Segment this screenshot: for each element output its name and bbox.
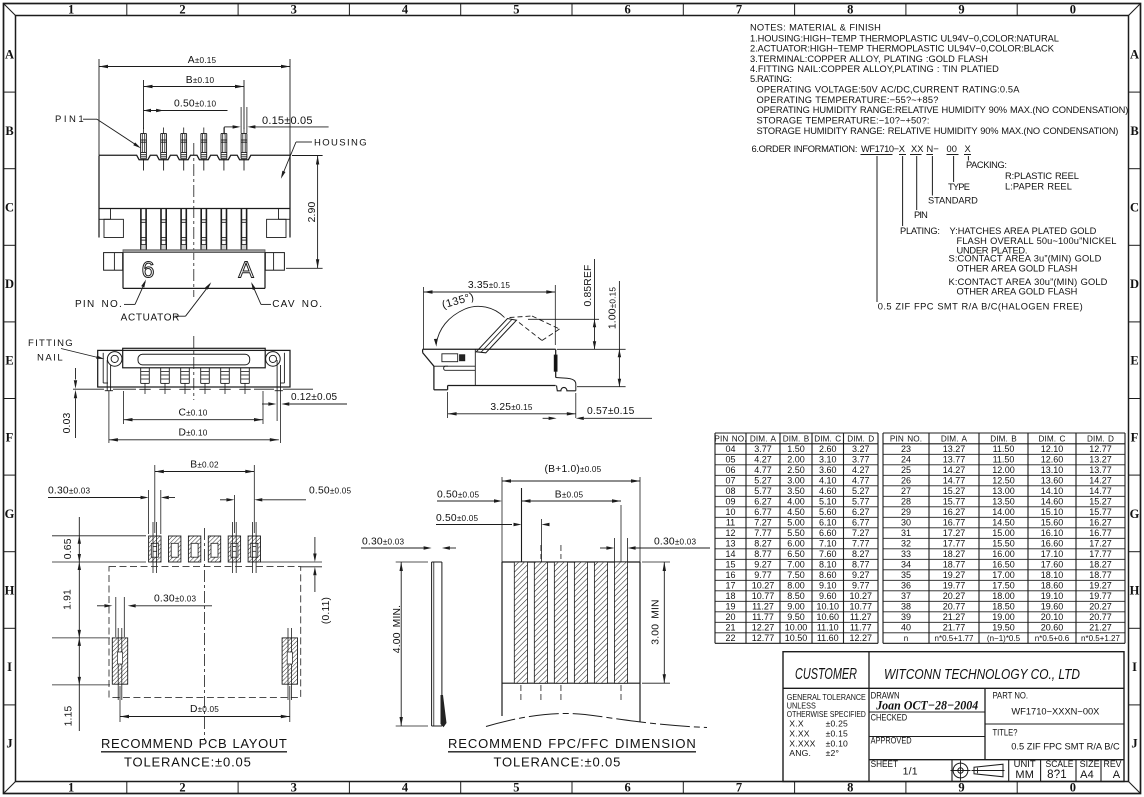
profile dim 3.35±0.15	[424, 291, 556, 293]
svg-text:6.27: 6.27	[852, 507, 870, 517]
svg-text:n*0.5+0.6: n*0.5+0.6	[1035, 634, 1070, 643]
svg-text:19.50: 19.50	[992, 623, 1015, 633]
svg-text:FITTING: FITTING	[28, 338, 73, 349]
svg-text:9.10: 9.10	[819, 581, 837, 591]
svg-text:36: 36	[901, 581, 911, 591]
svg-text:9: 9	[958, 3, 964, 17]
svg-text:2.ACTUATOR:HIGH−TEMP THERMOPL: 2.ACTUATOR:HIGH−TEMP THERMOPLASTIC UL94V…	[750, 44, 1055, 54]
svg-text:3: 3	[291, 781, 297, 795]
svg-text:24: 24	[901, 455, 911, 465]
profile lever open position	[476, 319, 516, 353]
svg-text:8.27: 8.27	[754, 539, 772, 549]
svg-text:10.27: 10.27	[752, 581, 775, 591]
svg-text:28: 28	[901, 497, 911, 507]
svg-text:3.60: 3.60	[819, 465, 837, 475]
fpc hatched conductor bars	[514, 562, 527, 683]
svg-text:WITCONN TECHNOLOGY CO., LTD: WITCONN TECHNOLOGY CO., LTD	[884, 667, 1080, 683]
svg-text:15.10: 15.10	[1041, 507, 1064, 517]
front view lower housing side walls	[98, 209, 100, 238]
svg-text:2.90: 2.90	[307, 202, 318, 223]
svg-text:18.27: 18.27	[943, 549, 966, 559]
svg-text:6.27: 6.27	[754, 497, 772, 507]
svg-text:12.60: 12.60	[1041, 455, 1064, 465]
svg-text:0.12±0.05: 0.12±0.05	[291, 392, 337, 403]
svg-text:2.50: 2.50	[787, 465, 805, 475]
svg-text:L:PAPER REEL: L:PAPER REEL	[1005, 182, 1072, 192]
svg-text:19.60: 19.60	[1041, 602, 1064, 612]
svg-text:3.00 MIN: 3.00 MIN	[651, 599, 662, 644]
svg-text:19.27: 19.27	[1089, 581, 1112, 591]
side view fitting nail left	[107, 352, 122, 367]
svg-text:4.77: 4.77	[852, 476, 870, 486]
svg-text:30: 30	[901, 518, 911, 528]
svg-text:17: 17	[725, 581, 735, 591]
side view top lid	[123, 348, 266, 368]
svg-text:X.XXX: X.XXX	[789, 738, 815, 748]
svg-text:7.10: 7.10	[819, 539, 837, 549]
svg-text:B: B	[1130, 124, 1138, 138]
svg-text:C: C	[1130, 201, 1139, 215]
svg-text:17.00: 17.00	[992, 570, 1015, 580]
side view dim C±0.10 extension lines	[123, 391, 125, 424]
svg-text:S:CONTACT AREA 3u”(MIN) GOL: S:CONTACT AREA 3u”(MIN) GOLD	[949, 254, 1102, 264]
projection symbol	[953, 763, 968, 778]
svg-text:13.27: 13.27	[943, 444, 966, 454]
svg-text:E: E	[1130, 354, 1138, 368]
svg-text:10.77: 10.77	[849, 602, 872, 612]
svg-text:4.27: 4.27	[754, 455, 772, 465]
svg-text:4.00: 4.00	[787, 497, 805, 507]
svg-text:N−: N−	[927, 144, 939, 154]
svg-text:9.77: 9.77	[852, 581, 870, 591]
svg-text:A4: A4	[1080, 769, 1094, 781]
svg-text:RECOMMEND PCB LAYOUT: RECOMMEND PCB LAYOUT	[101, 736, 287, 751]
svg-text:DIM. C: DIM. C	[814, 435, 841, 444]
order info leader lines	[876, 156, 878, 302]
svg-text:11.27: 11.27	[850, 612, 872, 622]
front view dim A±0.15	[99, 66, 290, 68]
svg-text:10.27: 10.27	[849, 591, 872, 601]
svg-text:4.27: 4.27	[852, 465, 870, 475]
svg-text:5.10: 5.10	[819, 497, 837, 507]
svg-text:7.77: 7.77	[754, 528, 772, 538]
svg-text:10.00: 10.00	[785, 623, 808, 633]
svg-text:2.60: 2.60	[819, 444, 837, 454]
svg-text:16.00: 16.00	[992, 549, 1015, 559]
svg-text:0.50±0.10: 0.50±0.10	[174, 99, 217, 110]
order info underlines	[861, 154, 893, 156]
svg-text:13.00: 13.00	[992, 486, 1015, 496]
svg-text:DIM. C: DIM. C	[1038, 435, 1065, 444]
svg-text:RECOMMEND FPC/FFC DIMENSION: RECOMMEND FPC/FFC DIMENSION	[448, 736, 696, 751]
svg-text:8: 8	[847, 3, 853, 17]
svg-text:DIM. A: DIM. A	[750, 435, 777, 444]
profile solder tab	[556, 378, 576, 391]
svg-text:PIN: PIN	[914, 210, 928, 220]
profile right contact slot	[554, 355, 557, 371]
profile dim 0.85REF	[594, 259, 596, 349]
svg-text:F: F	[1131, 430, 1139, 444]
svg-text:(n−1)*0.5: (n−1)*0.5	[987, 634, 1021, 643]
svg-text:21.27: 21.27	[943, 612, 966, 622]
svg-text:3.77: 3.77	[754, 444, 772, 454]
svg-text:10: 10	[725, 507, 735, 517]
front view terminals above housing	[140, 134, 142, 159]
svg-text:23: 23	[901, 444, 911, 454]
svg-text:9.50: 9.50	[787, 612, 805, 622]
svg-text:19.10: 19.10	[1041, 591, 1064, 601]
svg-text:B: B	[5, 124, 13, 138]
svg-text:09: 09	[725, 497, 735, 507]
svg-text:18.50: 18.50	[992, 602, 1015, 612]
svg-text:n: n	[904, 634, 908, 643]
svg-text:7.27: 7.27	[754, 518, 772, 528]
svg-text:4.60: 4.60	[819, 486, 837, 496]
svg-text:STANDARD: STANDARD	[928, 196, 978, 206]
svg-text:6.50: 6.50	[787, 549, 805, 559]
profile dim 3.35±0.15 extension lines	[423, 287, 425, 349]
svg-text:Y:HATCHES AREA PLATED GOLD: Y:HATCHES AREA PLATED GOLD	[950, 226, 1097, 236]
svg-text:9.60: 9.60	[819, 591, 837, 601]
svg-text:HOUSING: HOUSING	[314, 138, 367, 149]
svg-text:A±0.15: A±0.15	[188, 55, 217, 66]
svg-text:0.30±0.03: 0.30±0.03	[48, 486, 91, 497]
side view dim 0.12±0.05	[268, 402, 276, 405]
svg-text:TYPE: TYPE	[948, 182, 970, 192]
svg-text:12: 12	[725, 528, 735, 538]
svg-text:13.10: 13.10	[1041, 465, 1064, 475]
svg-text:8: 8	[847, 781, 853, 795]
svg-text:18: 18	[725, 591, 735, 601]
svg-text:13: 13	[725, 539, 735, 549]
svg-text:G: G	[5, 507, 15, 521]
svg-text:0.57±0.15: 0.57±0.15	[587, 406, 635, 417]
svg-text:DIM. D: DIM. D	[1087, 435, 1114, 444]
svg-text:CHECKED: CHECKED	[871, 713, 908, 723]
profile dim 3.25±0.15 extension lines	[447, 392, 449, 418]
svg-text:15.27: 15.27	[1089, 497, 1112, 507]
svg-text:20.77: 20.77	[1089, 612, 1112, 622]
svg-text:10.77: 10.77	[752, 591, 775, 601]
svg-text:12.77: 12.77	[1089, 444, 1112, 454]
svg-text:±2°: ±2°	[826, 748, 840, 758]
svg-text:6: 6	[142, 257, 155, 283]
svg-text:K:CONTACT AREA 30u”(MIN) GO: K:CONTACT AREA 30u”(MIN) GOLD	[949, 277, 1108, 287]
svg-text:R:PLASTIC REEL: R:PLASTIC REEL	[1005, 171, 1079, 181]
fpc dim (B+1.0)±0.05	[502, 480, 640, 482]
svg-text:9.27: 9.27	[754, 560, 772, 570]
pcb dim D±0.05	[119, 686, 121, 722]
svg-text:0.50±0.05: 0.50±0.05	[437, 490, 480, 501]
svg-text:PIN1: PIN1	[55, 114, 84, 125]
pcb center line	[204, 528, 206, 740]
svg-text:PART NO.: PART NO.	[993, 690, 1029, 700]
fpc dim B±0.05	[522, 500, 622, 502]
svg-text:11.27: 11.27	[752, 602, 774, 612]
svg-text:APPROVED: APPROVED	[871, 736, 912, 746]
svg-text:7.27: 7.27	[852, 528, 870, 538]
svg-text:10.50: 10.50	[785, 633, 808, 643]
svg-text:5.60: 5.60	[819, 507, 837, 517]
svg-text:8?1: 8?1	[1047, 769, 1067, 781]
svg-text:20: 20	[725, 612, 735, 622]
svg-text:(B+1.0)±0.05: (B+1.0)±0.05	[545, 464, 602, 475]
svg-text:17.60: 17.60	[1041, 560, 1064, 570]
svg-text:1.00±0.15: 1.00±0.15	[607, 287, 618, 330]
profile dim 0.57±0.15	[549, 417, 557, 420]
svg-text:6.ORDER INFORMATION:: 6.ORDER INFORMATION:	[752, 144, 858, 154]
svg-text:20.77: 20.77	[943, 602, 966, 612]
profile lever top line	[528, 318, 599, 320]
svg-text:33: 33	[901, 549, 911, 559]
svg-text:11.60: 11.60	[817, 633, 839, 643]
svg-text:9.77: 9.77	[754, 570, 772, 580]
svg-text:5.00: 5.00	[787, 518, 805, 528]
svg-text:11.77: 11.77	[752, 612, 774, 622]
fpc strip side view	[431, 562, 433, 726]
svg-text:19: 19	[725, 602, 735, 612]
svg-text:11.50: 11.50	[993, 455, 1015, 465]
front view contacts	[140, 209, 142, 250]
svg-text:PLATING:: PLATING:	[900, 226, 940, 236]
front view center line	[193, 143, 195, 297]
svg-text:A: A	[238, 257, 254, 283]
svg-text:00: 00	[947, 144, 958, 154]
svg-text:6.77: 6.77	[852, 518, 870, 528]
svg-text:07: 07	[725, 476, 735, 486]
svg-text:37: 37	[901, 591, 911, 601]
svg-text:4.FITTING NAIL:COPPER ALLOY,: 4.FITTING NAIL:COPPER ALLOY,PLATING : TI…	[750, 64, 999, 74]
svg-text:15.60: 15.60	[1041, 518, 1064, 528]
svg-text:16.60: 16.60	[1041, 539, 1064, 549]
side view center line	[193, 336, 195, 400]
svg-text:3: 3	[291, 3, 297, 17]
svg-text:0.30±0.03: 0.30±0.03	[154, 594, 197, 605]
svg-text:18.77: 18.77	[943, 560, 966, 570]
svg-text:5.50: 5.50	[787, 528, 805, 538]
svg-text:9: 9	[958, 781, 964, 795]
svg-text:STORAGE HUMIDITY RANGE: RELA: STORAGE HUMIDITY RANGE: RELATIVE HUMIDIT…	[757, 126, 1119, 136]
svg-text:5: 5	[513, 3, 519, 17]
svg-text:5.77: 5.77	[754, 486, 772, 496]
svg-text:PIN NO.: PIN NO.	[714, 435, 746, 444]
svg-text:21.77: 21.77	[943, 623, 966, 633]
svg-text:0.5 ZIF FPC SMT R/A B/C: 0.5 ZIF FPC SMT R/A B/C	[1011, 742, 1120, 752]
svg-text:3.50: 3.50	[787, 486, 805, 496]
svg-text:18.10: 18.10	[1041, 570, 1064, 580]
svg-text:n*0.5+1.77: n*0.5+1.77	[935, 634, 974, 643]
svg-text:8.50: 8.50	[787, 591, 805, 601]
svg-text:12.00: 12.00	[992, 465, 1015, 475]
svg-text:18.77: 18.77	[1089, 570, 1112, 580]
svg-text:32: 32	[901, 539, 911, 549]
svg-text:XX: XX	[911, 144, 924, 154]
svg-text:14.60: 14.60	[1041, 497, 1064, 507]
svg-text:18.27: 18.27	[1089, 560, 1112, 570]
svg-text:1: 1	[68, 3, 74, 17]
svg-text:08: 08	[725, 486, 735, 496]
svg-text:SCALE: SCALE	[1046, 759, 1074, 769]
pcb left extension lines	[52, 535, 146, 537]
svg-text:PACKING:: PACKING:	[966, 160, 1007, 170]
svg-text:10.10: 10.10	[816, 602, 839, 612]
svg-text:DIM. D: DIM. D	[847, 435, 874, 444]
svg-text:19.00: 19.00	[992, 612, 1015, 622]
svg-text:16.10: 16.10	[1041, 528, 1064, 538]
side view dim 0.03	[75, 368, 77, 380]
front view dim B±0.10 extension lines	[143, 80, 145, 129]
svg-text:20.27: 20.27	[1089, 602, 1112, 612]
svg-text:0.65: 0.65	[63, 538, 74, 559]
svg-text:10.60: 10.60	[816, 612, 839, 622]
svg-text:16.77: 16.77	[943, 518, 966, 528]
svg-text:7.50: 7.50	[787, 570, 805, 580]
svg-text:TITLE?: TITLE?	[993, 728, 1018, 738]
side view dim D±0.10	[109, 439, 279, 441]
svg-text:NOTES: MATERIAL & FINISH: NOTES: MATERIAL & FINISH	[750, 23, 881, 33]
profile dim 3.25±0.15	[448, 413, 576, 415]
pcb dim B±0.02 extension lines	[154, 465, 156, 533]
front view actuator top strip	[123, 250, 265, 253]
svg-text:0.5 ZIF FPC SMT R/A B/C(H: 0.5 ZIF FPC SMT R/A B/C(HALOGEN FREE)	[878, 302, 1083, 312]
svg-text:14.27: 14.27	[943, 465, 966, 475]
svg-text:PIN NO.: PIN NO.	[890, 435, 922, 444]
svg-text:J: J	[1131, 737, 1137, 751]
svg-text:9.27: 9.27	[852, 570, 870, 580]
svg-text:4: 4	[402, 3, 409, 17]
svg-text:11: 11	[726, 518, 735, 528]
svg-text:MM: MM	[1015, 769, 1034, 781]
svg-text:1.50: 1.50	[787, 444, 805, 454]
svg-text:1.15: 1.15	[64, 706, 75, 727]
svg-text:8.27: 8.27	[852, 549, 870, 559]
svg-text:6: 6	[625, 781, 631, 795]
svg-text:0: 0	[1070, 3, 1076, 17]
svg-text:1.HOUSING:HIGH−TEMP THERMOPLA: 1.HOUSING:HIGH−TEMP THERMOPLASTIC UL94V−…	[750, 34, 1059, 44]
svg-text:NAIL: NAIL	[37, 353, 63, 364]
svg-text:SIZE: SIZE	[1080, 759, 1100, 769]
svg-text:7.77: 7.77	[852, 539, 870, 549]
svg-text:5.27: 5.27	[852, 486, 870, 496]
svg-text:3.25±0.15: 3.25±0.15	[490, 402, 533, 413]
svg-text:TOLERANCE:±0.05: TOLERANCE:±0.05	[124, 755, 251, 770]
svg-text:(0.11): (0.11)	[321, 597, 332, 624]
svg-text:OPERATING HUMIDITY RANGE:REL: OPERATING HUMIDITY RANGE:RELATIVE HUMIDI…	[757, 105, 1129, 115]
svg-text:1.91: 1.91	[63, 589, 74, 610]
side view dim C±0.10	[124, 419, 264, 421]
profile lever phantom dashed	[510, 316, 533, 318]
svg-text:14.10: 14.10	[1041, 486, 1064, 496]
svg-text:21.27: 21.27	[1089, 623, 1112, 633]
svg-text:DIM. B: DIM. B	[783, 435, 810, 444]
svg-text:4.00 MIN.: 4.00 MIN.	[392, 605, 403, 653]
svg-text:04: 04	[725, 444, 735, 454]
svg-text:DIM. A: DIM. A	[941, 435, 968, 444]
pcb courtyard dashed rect	[109, 567, 301, 698]
svg-text:6: 6	[625, 3, 631, 17]
svg-text:20.27: 20.27	[943, 591, 966, 601]
svg-text:±0.15: ±0.15	[826, 728, 848, 738]
svg-text:16.27: 16.27	[943, 507, 966, 517]
svg-text:3.35±0.15: 3.35±0.15	[468, 280, 511, 291]
svg-text:22: 22	[725, 633, 735, 643]
svg-text:OPERATING VOLTAGE:50V AC/DC,: OPERATING VOLTAGE:50V AC/DC,CURRENT RATI…	[757, 85, 1021, 95]
svg-text:8.10: 8.10	[819, 560, 837, 570]
svg-text:0.50±0.05: 0.50±0.05	[436, 513, 479, 524]
svg-text:B±0.05: B±0.05	[555, 490, 584, 501]
svg-text:OTHERWISE SPECIFIED: OTHERWISE SPECIFIED	[787, 709, 866, 719]
svg-text:14.77: 14.77	[943, 476, 966, 486]
svg-text:WF1710−XXXN−00X: WF1710−XXXN−00X	[1011, 707, 1099, 717]
svg-text:19.27: 19.27	[943, 570, 966, 580]
svg-text:8.60: 8.60	[819, 570, 837, 580]
profile dim 1.00±0.15	[618, 281, 620, 387]
svg-text:16.77: 16.77	[1089, 528, 1112, 538]
svg-text:J: J	[6, 737, 12, 751]
svg-text:Joan OCT−28−2004: Joan OCT−28−2004	[875, 698, 978, 713]
svg-text:4.50: 4.50	[787, 507, 805, 517]
svg-text:12.27: 12.27	[849, 633, 872, 643]
svg-text:A: A	[1130, 47, 1139, 61]
svg-text:26: 26	[901, 476, 911, 486]
svg-text:OTHER AREA GOLD FLASH: OTHER AREA GOLD FLASH	[957, 263, 1078, 273]
svg-text:7.60: 7.60	[819, 549, 837, 559]
svg-text:18.00: 18.00	[992, 591, 1015, 601]
svg-text:13.50: 13.50	[992, 497, 1015, 507]
fpc bar center lines	[540, 545, 542, 559]
svg-text:11.50: 11.50	[993, 444, 1015, 454]
svg-text:7.00: 7.00	[787, 560, 805, 570]
front view dim A±0.15 extension lines	[98, 59, 100, 155]
svg-text:±0.25: ±0.25	[826, 719, 848, 729]
svg-text:13.27: 13.27	[1089, 455, 1112, 465]
profile rotation arc	[436, 306, 504, 344]
svg-text:13.77: 13.77	[1089, 465, 1112, 475]
svg-text:2: 2	[179, 781, 185, 795]
svg-text:ANG.: ANG.	[789, 748, 811, 758]
svg-text:39: 39	[901, 612, 911, 622]
svg-text:15: 15	[725, 560, 735, 570]
svg-text:12.50: 12.50	[992, 476, 1015, 486]
svg-text:16.50: 16.50	[992, 560, 1015, 570]
svg-text:D±0.10: D±0.10	[178, 428, 207, 439]
svg-text:6.00: 6.00	[787, 539, 805, 549]
svg-text:17.10: 17.10	[1041, 549, 1064, 559]
fpc dim (B+1.0)±0.05 extension lines	[501, 477, 503, 562]
svg-text:15.00: 15.00	[992, 528, 1015, 538]
front view dim 0.15±0.05	[240, 107, 242, 133]
svg-text:6.60: 6.60	[819, 528, 837, 538]
side view actuator bar	[138, 354, 250, 365]
svg-text:B±0.02: B±0.02	[190, 460, 219, 471]
svg-text:11.10: 11.10	[817, 623, 839, 633]
svg-text:17.77: 17.77	[1089, 549, 1112, 559]
svg-text:C±0.10: C±0.10	[178, 408, 207, 419]
svg-text:05: 05	[725, 455, 735, 465]
svg-text:3.TERMINAL:COPPER ALLOY, PLA: 3.TERMINAL:COPPER ALLOY, PLATING :GOLD F…	[750, 54, 988, 64]
svg-text:CAV NO.: CAV NO.	[272, 299, 322, 310]
svg-text:18.60: 18.60	[1041, 581, 1064, 591]
svg-text:4: 4	[402, 781, 409, 795]
side view fitting nail lead lines	[108, 391, 110, 443]
svg-text:WF1710−X: WF1710−X	[861, 144, 905, 154]
svg-text:16: 16	[725, 570, 735, 580]
svg-text:FLASH OVERALL 50u~100u”NICKE: FLASH OVERALL 50u~100u”NICKEL	[957, 236, 1117, 246]
svg-text:6.10: 6.10	[819, 518, 837, 528]
fpc dim 4.00 MIN	[396, 561, 428, 563]
front view dim B±0.10	[144, 86, 245, 88]
svg-text:27: 27	[901, 486, 911, 496]
